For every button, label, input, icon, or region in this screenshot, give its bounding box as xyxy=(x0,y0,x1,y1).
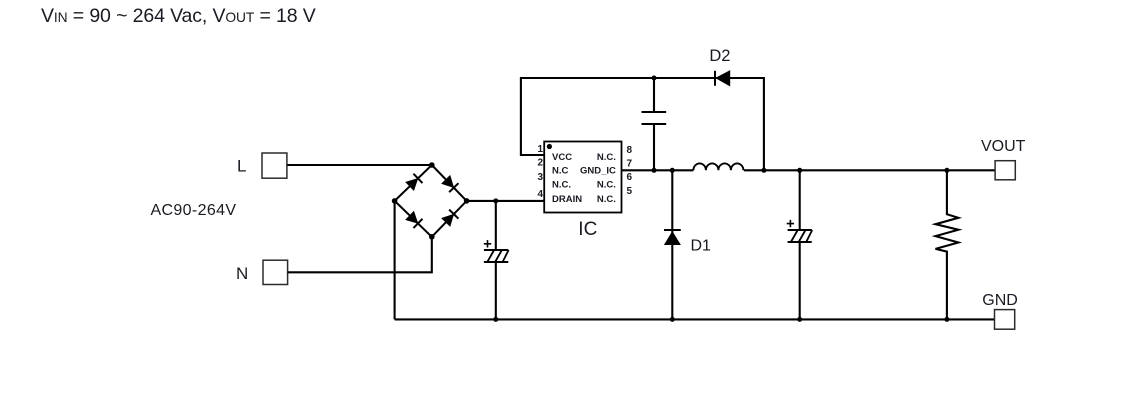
svg-text:8: 8 xyxy=(627,145,633,156)
svg-text:AC90-264V: AC90-264V xyxy=(151,202,237,219)
junction output cap top xyxy=(797,168,802,173)
svg-text:4: 4 xyxy=(537,189,543,200)
junction bridge right xyxy=(464,198,470,204)
junction bridge top xyxy=(429,162,435,168)
wire L to bridge top xyxy=(287,164,432,166)
junction bridge left xyxy=(392,198,398,204)
junction D1 at rail xyxy=(670,317,675,322)
svg-text:VCC: VCC xyxy=(552,152,572,163)
resistor R load xyxy=(936,170,959,319)
diode D2 xyxy=(715,71,730,86)
inductor L1 xyxy=(693,163,743,170)
terminal N xyxy=(263,260,288,284)
junction input cap top xyxy=(493,198,498,203)
wire inductor to VOUT xyxy=(744,169,995,171)
svg-text:GND_IC: GND_IC xyxy=(580,166,616,177)
wire N to bridge bottom xyxy=(288,237,432,272)
svg-text:1: 1 xyxy=(537,144,543,155)
svg-text:6: 6 xyxy=(627,172,633,183)
terminal L xyxy=(262,153,287,178)
svg-text:N.C.: N.C. xyxy=(597,179,616,190)
svg-text:N.C.: N.C. xyxy=(597,152,616,163)
junction top wire cap node xyxy=(652,76,657,81)
wire GND_IC pin7 to inductor xyxy=(622,169,694,171)
pin 1 indicator dot xyxy=(547,144,552,149)
bridge diode bottom-right xyxy=(442,210,458,226)
svg-text:GND: GND xyxy=(982,292,1018,309)
bridge diode left-bottom xyxy=(406,212,422,228)
svg-text:7: 7 xyxy=(627,159,633,170)
svg-text:N: N xyxy=(236,264,248,283)
svg-text:N.C: N.C xyxy=(552,166,569,177)
svg-text:D1: D1 xyxy=(691,237,712,254)
svg-text:D2: D2 xyxy=(709,47,730,65)
ground rail xyxy=(395,318,995,320)
junction input cap at rail xyxy=(493,317,498,322)
junction resistor top xyxy=(944,168,949,173)
bridge rectifier diamond xyxy=(395,165,467,237)
svg-text:3: 3 xyxy=(537,172,543,183)
svg-text:DRAIN: DRAIN xyxy=(552,194,582,205)
svg-text:N.C.: N.C. xyxy=(552,179,571,190)
terminal GND xyxy=(995,310,1015,330)
svg-text:L: L xyxy=(237,157,246,176)
wire bridge right to DRAIN pin 4 xyxy=(467,200,545,202)
junction D2 riser xyxy=(761,168,766,173)
capacitor C-out electrolytic xyxy=(787,170,813,319)
junction resistor at rail xyxy=(944,317,949,322)
capacitor C2 (snubber) xyxy=(642,78,667,170)
svg-text:N.C.: N.C. xyxy=(597,194,616,205)
bridge diode lower-left (left to top) xyxy=(406,174,422,190)
junction output cap at rail xyxy=(797,317,802,322)
junction D1 top xyxy=(670,168,675,173)
svg-text:VOUT: VOUT xyxy=(981,138,1026,155)
wire bridge left to ground rail xyxy=(394,201,396,320)
wire VCC pin1 up and over to D2 and down to inductor node xyxy=(521,78,764,170)
capacitor C-in electrolytic xyxy=(484,201,509,320)
svg-text:2: 2 xyxy=(537,158,543,169)
svg-text:IC: IC xyxy=(578,219,597,240)
diode D1 xyxy=(664,170,681,319)
svg-text:VIN = 90 ~ 264 Vac, VOUT = 18: VIN = 90 ~ 264 Vac, VOUT = 18 V xyxy=(41,5,316,27)
junction bridge bottom xyxy=(429,234,435,240)
terminal VOUT xyxy=(995,161,1015,180)
op IC U1 box xyxy=(544,142,621,213)
junction cap C2 bottom xyxy=(652,168,657,173)
svg-text:5: 5 xyxy=(627,186,633,197)
bridge diode upper-right (top to right) xyxy=(442,176,458,192)
